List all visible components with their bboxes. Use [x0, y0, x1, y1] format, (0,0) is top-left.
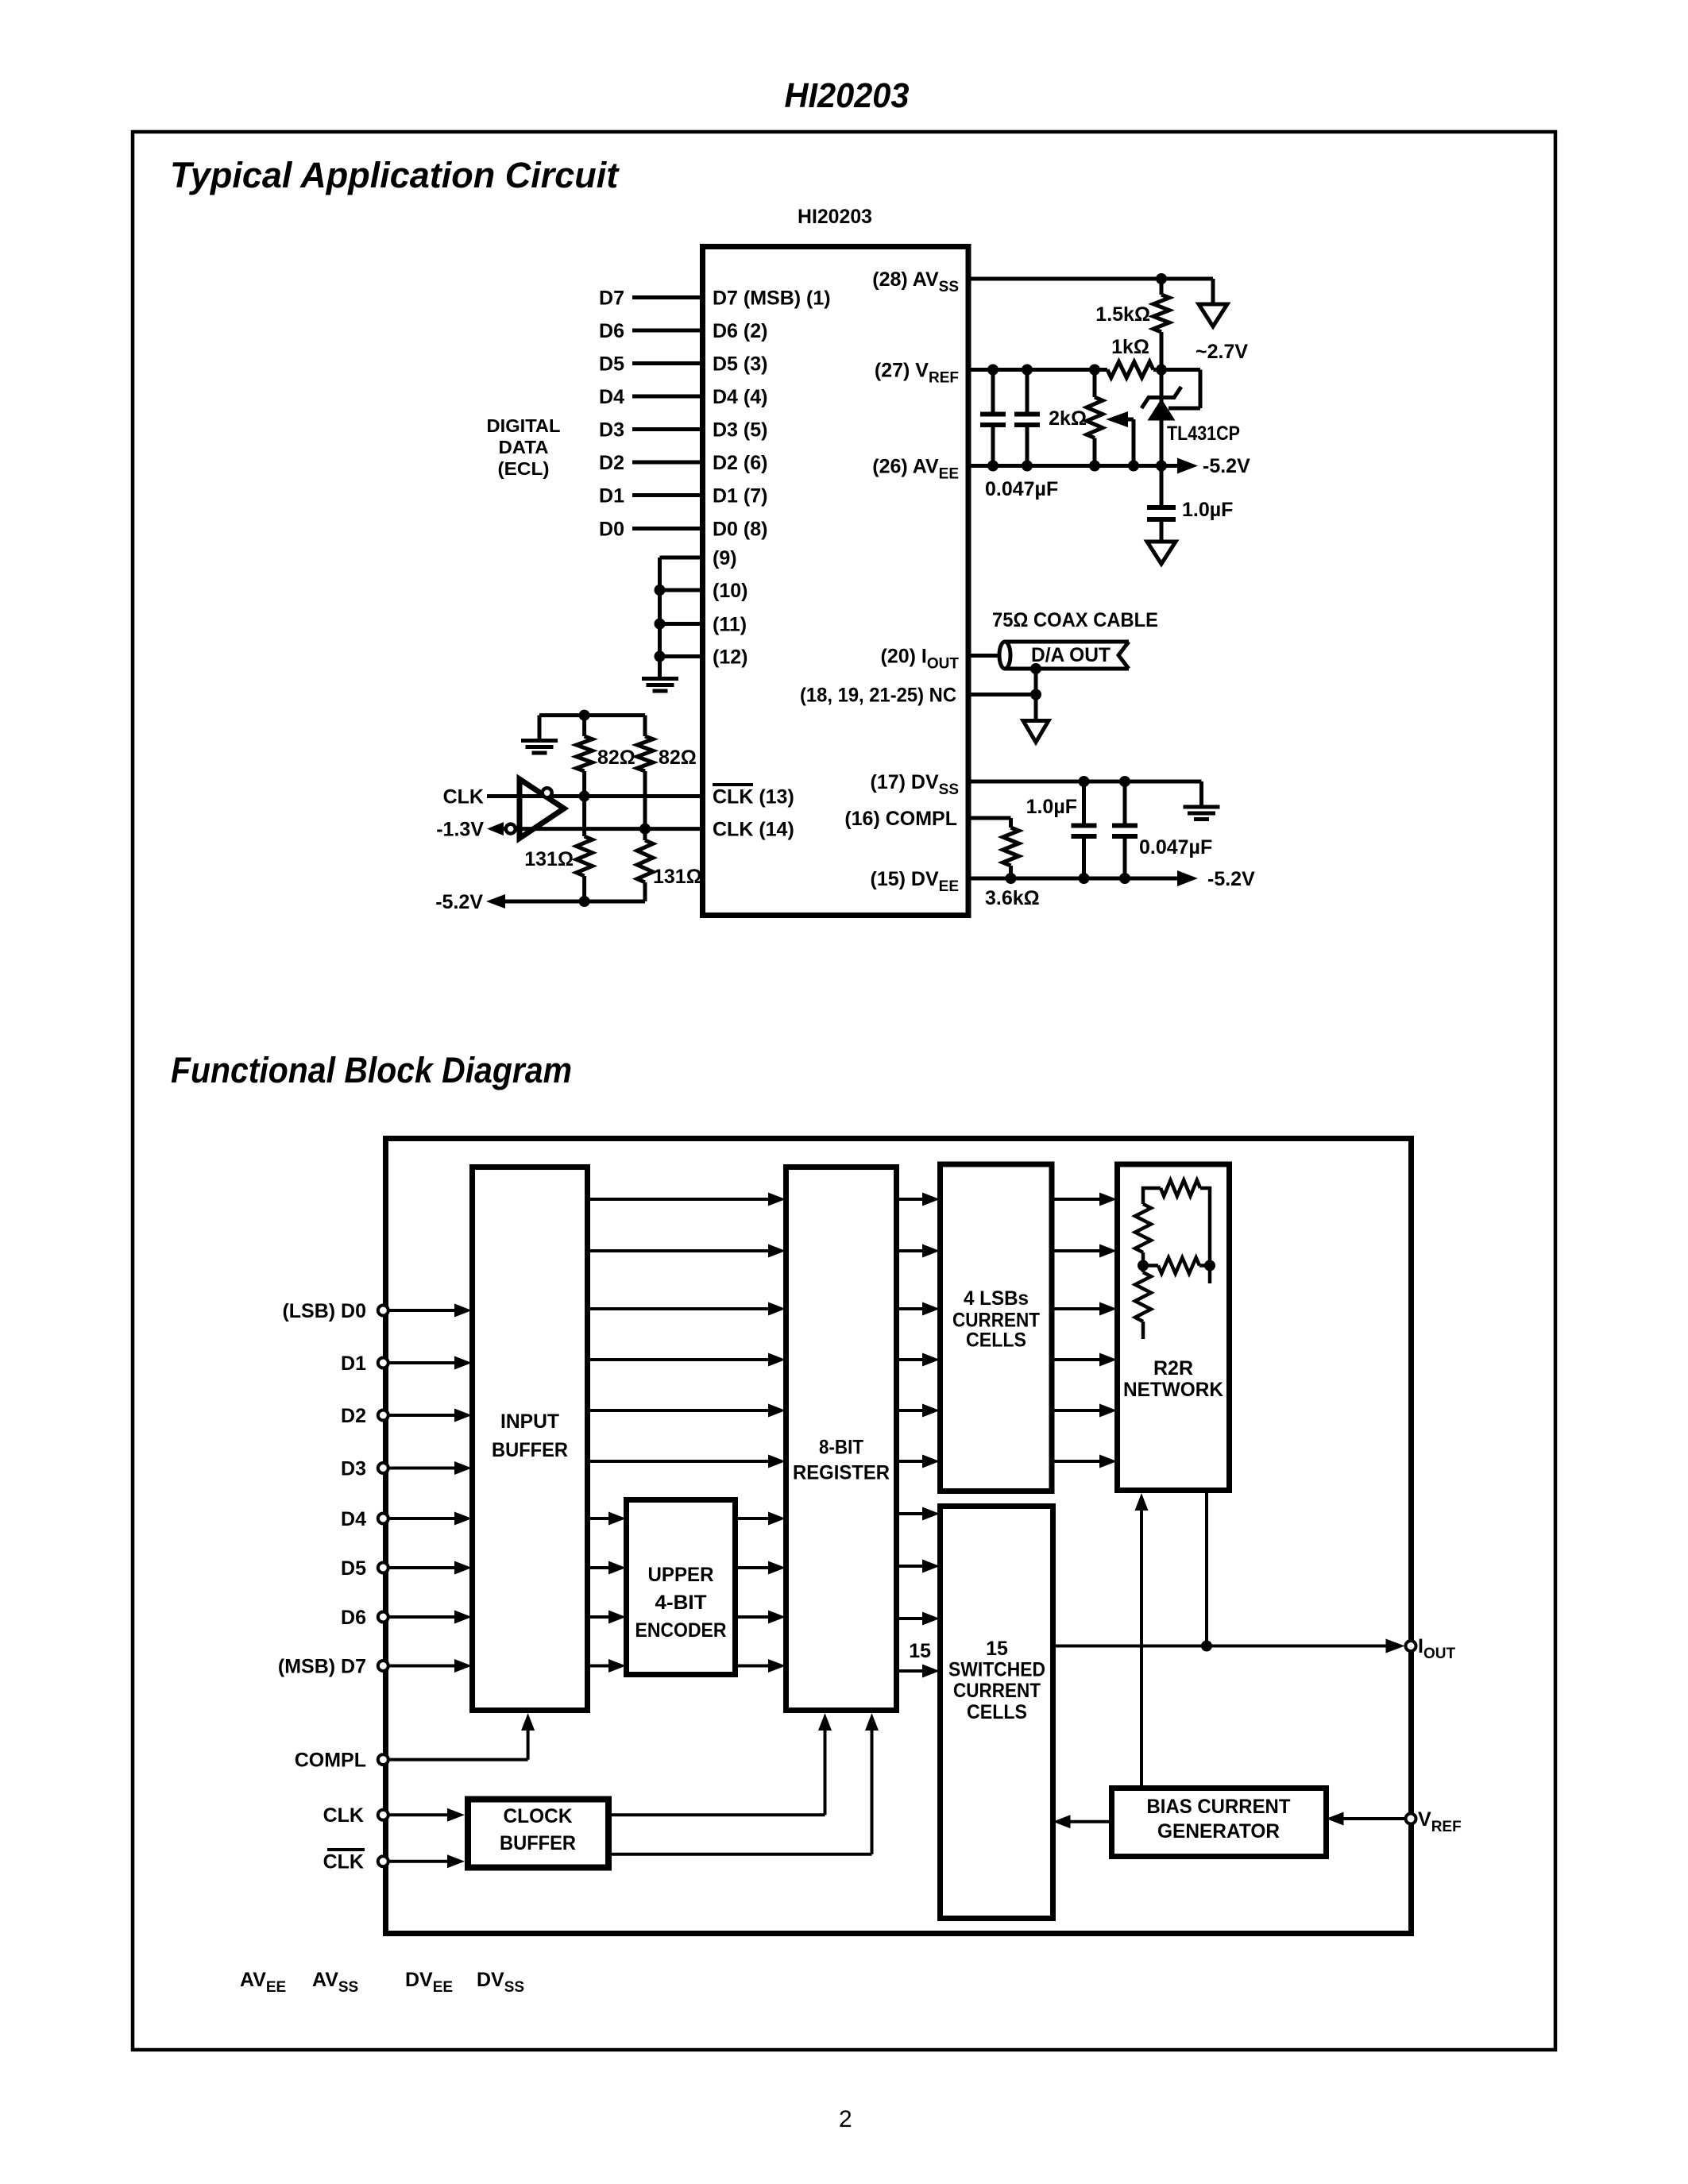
svg-text:(16) COMPL: (16) COMPL	[844, 808, 957, 830]
svg-text:D1: D1	[341, 1352, 366, 1375]
svg-text:D7 (MSB) (1): D7 (MSB) (1)	[713, 287, 831, 310]
svg-text:CLK: CLK	[443, 786, 484, 808]
svg-text:CLOCK: CLOCK	[504, 1805, 573, 1827]
svg-text:CELLS: CELLS	[966, 1329, 1026, 1352]
svg-text:D5: D5	[341, 1557, 366, 1580]
svg-text:CURRENT: CURRENT	[953, 1680, 1041, 1702]
svg-text:82Ω: 82Ω	[659, 747, 697, 769]
svg-text:UPPER: UPPER	[648, 1564, 714, 1586]
svg-text:VREF: VREF	[1418, 1808, 1462, 1835]
svg-text:D3 (5): D3 (5)	[713, 419, 767, 442]
svg-text:15: 15	[909, 1640, 931, 1662]
svg-text:D6: D6	[599, 320, 624, 342]
svg-text:~2.7V: ~2.7V	[1196, 341, 1248, 363]
svg-text:D2: D2	[341, 1405, 366, 1427]
svg-text:D0: D0	[599, 519, 624, 541]
svg-text:SWITCHED: SWITCHED	[948, 1659, 1045, 1681]
svg-text:4-BIT: 4-BIT	[655, 1592, 707, 1614]
svg-text:8-BIT: 8-BIT	[819, 1437, 863, 1459]
svg-text:DVEE: DVEE	[405, 1969, 453, 1996]
svg-text:D2 (6): D2 (6)	[713, 452, 767, 474]
svg-text:CURRENT: CURRENT	[952, 1310, 1040, 1332]
svg-text:-5.2V: -5.2V	[1207, 868, 1255, 890]
svg-text:82Ω: 82Ω	[597, 747, 635, 769]
svg-text:-5.2V: -5.2V	[435, 891, 483, 913]
svg-text:(9): (9)	[713, 547, 737, 569]
svg-text:INPUT: INPUT	[500, 1410, 559, 1433]
svg-text:REGISTER: REGISTER	[793, 1462, 890, 1484]
svg-text:CLK: CLK	[323, 1804, 364, 1827]
svg-text:1.5kΩ: 1.5kΩ	[1095, 303, 1150, 326]
svg-text:ENCODER: ENCODER	[635, 1619, 727, 1642]
svg-text:(11): (11)	[713, 614, 747, 636]
svg-text:GENERATOR: GENERATOR	[1157, 1820, 1280, 1843]
svg-text:CLK (14): CLK (14)	[713, 819, 794, 841]
svg-text:D6: D6	[341, 1607, 366, 1629]
svg-text:Typical Application Circuit: Typical Application Circuit	[170, 155, 620, 195]
svg-text:(MSB) D7: (MSB) D7	[278, 1656, 366, 1678]
svg-text:CELLS: CELLS	[967, 1701, 1027, 1723]
svg-text:DVSS: DVSS	[477, 1969, 524, 1996]
svg-text:D/A OUT: D/A OUT	[1031, 644, 1111, 666]
svg-text:Functional Block Diagram: Functional Block Diagram	[171, 1050, 572, 1090]
svg-text:BIAS CURRENT: BIAS CURRENT	[1147, 1796, 1291, 1818]
svg-text:HI20203: HI20203	[798, 206, 872, 228]
svg-text:0.047µF: 0.047µF	[1139, 836, 1212, 859]
svg-text:D3: D3	[341, 1458, 366, 1480]
svg-text:CLK (13): CLK (13)	[713, 786, 794, 808]
svg-text:R2R: R2R	[1153, 1357, 1193, 1379]
svg-text:D6 (2): D6 (2)	[713, 320, 767, 342]
svg-text:D2: D2	[599, 452, 624, 474]
svg-text:NETWORK: NETWORK	[1123, 1379, 1223, 1401]
svg-text:BUFFER: BUFFER	[500, 1832, 576, 1854]
svg-text:CLK: CLK	[323, 1851, 364, 1873]
svg-text:HI20203: HI20203	[785, 76, 910, 115]
svg-text:D5 (3): D5 (3)	[713, 353, 767, 376]
svg-text:TL431CP: TL431CP	[1167, 423, 1240, 445]
svg-text:0.047µF: 0.047µF	[985, 478, 1058, 500]
svg-text:D4: D4	[599, 386, 624, 408]
svg-text:-5.2V: -5.2V	[1203, 455, 1250, 477]
svg-text:(18, 19, 21-25) NC: (18, 19, 21-25) NC	[800, 685, 956, 707]
svg-text:AVSS: AVSS	[312, 1969, 358, 1996]
svg-text:75Ω COAX CABLE: 75Ω COAX CABLE	[992, 609, 1158, 631]
svg-text:2kΩ: 2kΩ	[1049, 407, 1087, 430]
svg-text:131Ω: 131Ω	[524, 848, 574, 870]
svg-text:4 LSBs: 4 LSBs	[964, 1287, 1029, 1310]
svg-text:COMPL: COMPL	[295, 1750, 366, 1772]
svg-text:DATA: DATA	[499, 437, 549, 457]
svg-text:DIGITAL: DIGITAL	[487, 415, 561, 436]
svg-text:D7: D7	[599, 287, 624, 310]
svg-text:3.6kΩ: 3.6kΩ	[985, 887, 1040, 909]
svg-text:15: 15	[986, 1638, 1008, 1660]
svg-text:1.0µF: 1.0µF	[1026, 796, 1077, 818]
svg-text:(12): (12)	[713, 646, 747, 669]
svg-text:D1 (7): D1 (7)	[713, 485, 767, 507]
svg-text:BUFFER: BUFFER	[492, 1439, 568, 1461]
svg-text:D4 (4): D4 (4)	[713, 386, 767, 408]
svg-text:IOUT: IOUT	[1418, 1635, 1455, 1662]
svg-text:1kΩ: 1kΩ	[1111, 336, 1149, 358]
svg-text:-1.3V: -1.3V	[436, 819, 484, 841]
svg-text:D4: D4	[341, 1508, 366, 1530]
svg-text:D1: D1	[599, 485, 624, 507]
svg-text:131Ω: 131Ω	[653, 866, 702, 888]
svg-text:2: 2	[839, 2106, 852, 2132]
svg-text:AVEE: AVEE	[240, 1969, 286, 1996]
svg-text:(LSB) D0: (LSB) D0	[282, 1300, 366, 1322]
svg-text:1.0µF: 1.0µF	[1182, 499, 1233, 521]
svg-text:(ECL): (ECL)	[498, 458, 550, 479]
svg-text:D3: D3	[599, 419, 624, 442]
svg-text:D5: D5	[599, 353, 624, 376]
svg-text:(10): (10)	[713, 580, 747, 602]
svg-text:D0 (8): D0 (8)	[713, 519, 767, 541]
